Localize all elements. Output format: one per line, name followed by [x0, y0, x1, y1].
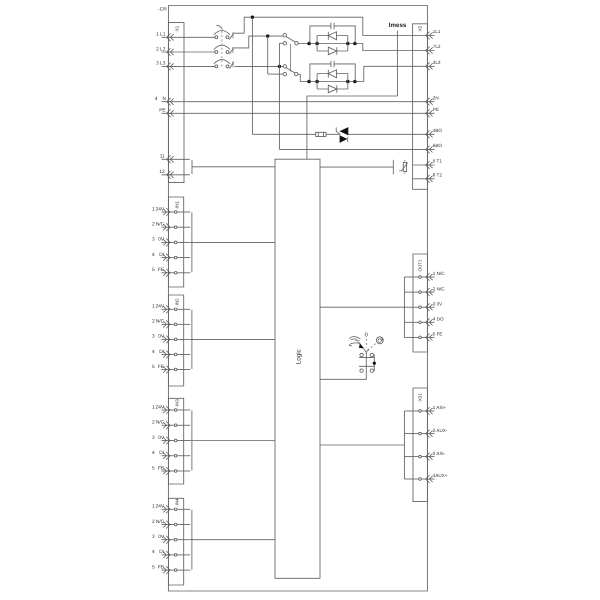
svg-text:0V: 0V	[158, 435, 165, 441]
svg-text:1: 1	[152, 504, 155, 510]
svg-text:DI: DI	[159, 252, 164, 258]
svg-text:-OUT1: -OUT1	[418, 259, 423, 273]
svg-text:0: 0	[365, 332, 368, 338]
svg-text:0V: 0V	[158, 334, 165, 340]
svg-text:DI: DI	[159, 549, 164, 555]
svg-text:-IN3: -IN3	[174, 399, 179, 408]
svg-text:5: 5	[152, 267, 155, 273]
svg-text:3: 3	[152, 435, 155, 441]
svg-text:1: 1	[152, 304, 155, 310]
svg-text:3: 3	[156, 61, 159, 67]
svg-text:5: 5	[152, 465, 155, 471]
svg-text:1 ASi+: 1 ASi+	[433, 405, 447, 410]
svg-text:0V: 0V	[158, 534, 165, 540]
svg-text:DI: DI	[159, 349, 164, 355]
svg-text:24V: 24V	[156, 504, 165, 510]
svg-text:Logic: Logic	[295, 349, 302, 364]
svg-text:7L2: 7L2	[433, 44, 441, 49]
svg-text:-X31: -X31	[418, 393, 423, 403]
svg-text:4 DO: 4 DO	[433, 317, 444, 322]
svg-text:4BO: 4BO	[433, 128, 443, 133]
svg-text:3: 3	[152, 334, 155, 340]
svg-text:4: 4	[155, 96, 158, 102]
svg-text:L3: L3	[160, 61, 166, 67]
svg-text:N/C: N/C	[156, 319, 165, 325]
svg-text:2: 2	[152, 420, 155, 426]
svg-text:1 N/C: 1 N/C	[433, 271, 445, 276]
svg-text:-IN2: -IN2	[174, 298, 179, 307]
svg-text:Imess: Imess	[389, 22, 407, 29]
svg-text:FE: FE	[158, 465, 164, 471]
svg-text:4: 4	[152, 549, 155, 555]
svg-text:24V: 24V	[156, 206, 165, 212]
svg-text:L2: L2	[160, 46, 166, 52]
svg-text:2: 2	[156, 46, 159, 52]
svg-text:4: 4	[152, 349, 155, 355]
svg-text:N/C: N/C	[156, 222, 165, 228]
svg-text:12: 12	[159, 169, 165, 175]
svg-text:2: 2	[152, 319, 155, 325]
svg-text:5: 5	[152, 364, 155, 370]
svg-text:24V: 24V	[156, 404, 165, 410]
svg-text:-X1: -X1	[174, 25, 179, 32]
svg-text:5: 5	[152, 564, 155, 570]
svg-text:3: 3	[152, 237, 155, 243]
svg-text:3 0V: 3 0V	[433, 301, 443, 306]
svg-text:2N: 2N	[433, 95, 439, 100]
svg-text:FE: FE	[158, 364, 164, 370]
svg-text:8 T2: 8 T2	[433, 172, 443, 177]
svg-text:L1: L1	[160, 32, 166, 38]
svg-text:5 T1: 5 T1	[433, 159, 443, 164]
svg-text:PE: PE	[159, 108, 165, 114]
svg-text:-IN4: -IN4	[174, 498, 179, 507]
svg-text:2: 2	[152, 519, 155, 525]
svg-text:3: 3	[152, 534, 155, 540]
svg-text:2 N/C: 2 N/C	[433, 286, 445, 291]
svg-text:2 AUX-: 2 AUX-	[433, 428, 448, 433]
svg-text:11: 11	[160, 154, 165, 160]
svg-text:-IN1: -IN1	[174, 201, 179, 210]
svg-text:1: 1	[152, 404, 155, 410]
svg-text:DI: DI	[159, 450, 164, 456]
svg-text:1L1: 1L1	[433, 29, 441, 34]
svg-text:FE: FE	[158, 267, 164, 273]
svg-text:N: N	[163, 96, 167, 102]
svg-text:5 FE: 5 FE	[433, 332, 443, 337]
svg-text:4: 4	[152, 450, 155, 456]
svg-text:1: 1	[156, 32, 159, 38]
svg-text:-X2: -X2	[418, 25, 423, 32]
svg-text:FE: FE	[158, 564, 164, 570]
svg-text:2: 2	[152, 222, 155, 228]
svg-text:24V: 24V	[156, 304, 165, 310]
svg-text:0V: 0V	[158, 237, 165, 243]
svg-text:PE: PE	[433, 107, 439, 112]
svg-text:4: 4	[152, 252, 155, 258]
svg-text:1: 1	[152, 206, 155, 212]
svg-text:3L3: 3L3	[433, 60, 441, 65]
svg-text:-CR: -CR	[158, 7, 167, 13]
svg-text:4AUX+: 4AUX+	[433, 473, 448, 478]
svg-text:6BO: 6BO	[433, 143, 443, 148]
svg-text:N/C: N/C	[156, 420, 165, 426]
svg-text:N/C: N/C	[156, 519, 165, 525]
svg-text:3 ASi-: 3 ASi-	[433, 451, 446, 456]
